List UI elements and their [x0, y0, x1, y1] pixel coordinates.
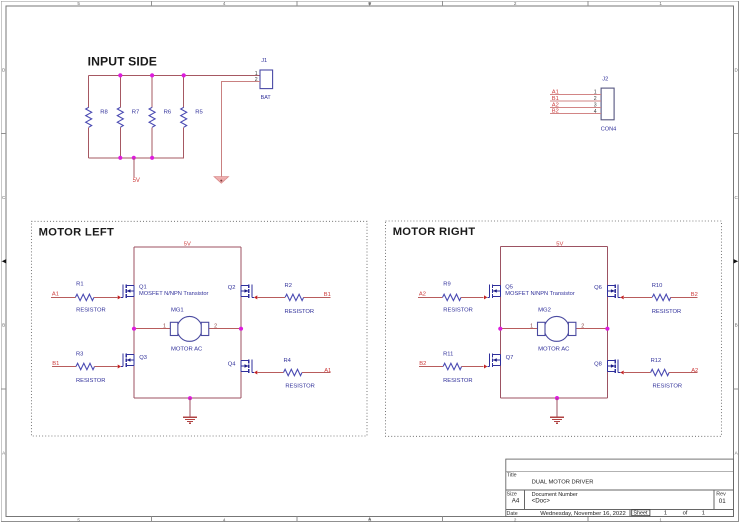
svg-text:DUAL MOTOR DRIVER: DUAL MOTOR DRIVER	[532, 479, 594, 485]
svg-text:R2: R2	[285, 283, 292, 289]
svg-text:A2: A2	[552, 102, 559, 108]
svg-text:Q7: Q7	[506, 355, 514, 361]
svg-text:2: 2	[514, 518, 517, 523]
svg-text:J1: J1	[261, 58, 267, 64]
net label B2	[419, 361, 426, 367]
net label A1	[552, 89, 559, 95]
svg-text:R9: R9	[443, 282, 450, 288]
svg-text:R1: R1	[76, 282, 83, 288]
resistor R12	[624, 358, 697, 390]
pin 1 J1	[255, 71, 258, 77]
ground bridge	[183, 417, 197, 423]
transistor Q2	[228, 284, 258, 299]
wire net B2 to J2 pin 4	[550, 113, 601, 115]
svg-text:Q6: Q6	[594, 285, 602, 291]
svg-text:<Doc>: <Doc>	[532, 498, 551, 505]
svg-text:RESISTOR: RESISTOR	[285, 384, 315, 390]
svg-text:R5: R5	[195, 110, 203, 116]
title block	[506, 459, 734, 517]
wire J1 pin2 to ground	[221, 82, 260, 177]
net label A1	[324, 368, 331, 374]
svg-text:R4: R4	[283, 358, 291, 364]
pin 1 MG1	[163, 323, 166, 329]
wire motor left	[500, 328, 537, 330]
svg-text:MOSFET N/NPN Transistor: MOSFET N/NPN Transistor	[139, 291, 209, 297]
svg-text:MOTOR AC: MOTOR AC	[171, 346, 203, 352]
junction bottom rail ground	[188, 396, 192, 400]
svg-text:Q1: Q1	[139, 285, 147, 291]
junction top rail R7	[118, 73, 122, 77]
section box MOTOR LEFT	[31, 221, 367, 436]
svg-text:A2: A2	[419, 292, 426, 298]
junction bottom rail ground	[555, 396, 559, 400]
junction left rail motor	[498, 327, 502, 331]
motor MG1	[170, 307, 208, 352]
resistor R10	[624, 283, 697, 315]
svg-text:MOTOR LEFT: MOTOR LEFT	[39, 227, 115, 239]
svg-text:R6: R6	[164, 110, 172, 116]
pin 2 J2	[594, 96, 597, 102]
svg-text:1: 1	[664, 511, 667, 517]
svg-text:1: 1	[255, 71, 258, 77]
connector J1	[260, 58, 273, 101]
svg-text:2: 2	[214, 323, 217, 329]
junction bottom rail R6	[150, 156, 154, 160]
svg-text:3: 3	[594, 103, 597, 109]
svg-text:RESISTOR: RESISTOR	[76, 378, 106, 384]
svg-text:Q4: Q4	[228, 362, 237, 368]
svg-text:RESISTOR: RESISTOR	[443, 378, 473, 384]
motor MG2	[538, 307, 576, 352]
transistor Q6	[594, 284, 624, 299]
wire 5V rail bridge	[134, 246, 241, 248]
wire right rail	[606, 247, 608, 398]
svg-text:5V: 5V	[184, 242, 191, 248]
svg-text:5V: 5V	[133, 178, 140, 184]
wire bottom rail bridge	[134, 397, 241, 399]
wire motor left	[134, 328, 170, 330]
svg-text:MG2: MG2	[538, 307, 551, 313]
svg-text:4: 4	[223, 1, 226, 6]
svg-text:MOTOR RIGHT: MOTOR RIGHT	[393, 226, 476, 238]
wire net B1 to J2 pin 2	[550, 100, 601, 102]
svg-text:B1: B1	[324, 292, 331, 298]
svg-text:Q3: Q3	[139, 355, 147, 361]
pin 2 MG1	[214, 323, 217, 329]
svg-text:5: 5	[77, 518, 80, 523]
svg-text:Sheet: Sheet	[633, 511, 648, 517]
net label B1	[552, 96, 559, 102]
svg-text:CON4: CON4	[601, 126, 617, 132]
net label A2	[552, 102, 559, 108]
svg-text:1: 1	[530, 323, 533, 329]
svg-text:5V: 5V	[556, 241, 563, 247]
svg-text:RESISTOR: RESISTOR	[443, 307, 473, 313]
power 5V bridge	[184, 242, 191, 248]
resistor R5	[181, 75, 204, 157]
svg-text:A4: A4	[512, 498, 520, 505]
svg-text:R7: R7	[132, 110, 140, 116]
svg-text:Q2: Q2	[228, 285, 236, 291]
section title INPUT SIDE	[88, 55, 157, 69]
resistor R7	[117, 75, 139, 157]
wire net A1 to J2 pin 1	[550, 94, 601, 96]
svg-text:MOSFET N/NPN Transistor: MOSFET N/NPN Transistor	[505, 291, 575, 297]
svg-text:BAT: BAT	[261, 95, 272, 101]
svg-text:2: 2	[594, 96, 597, 102]
svg-text:B1: B1	[52, 361, 59, 367]
resistor R4	[258, 358, 331, 390]
svg-text:B2: B2	[691, 292, 698, 298]
svg-text:A1: A1	[324, 368, 331, 374]
power 5V bridge	[556, 241, 563, 247]
net label B1	[324, 292, 331, 298]
pin 2 J1	[255, 77, 258, 83]
svg-text:B: B	[735, 323, 738, 328]
net label B1	[52, 361, 59, 367]
wire ground stub	[189, 398, 191, 417]
junction right rail motor	[605, 327, 609, 331]
resistor R3	[52, 351, 118, 384]
svg-text:1: 1	[163, 323, 166, 329]
junction top rail R5	[182, 73, 186, 77]
svg-text:R10: R10	[652, 283, 663, 289]
wire ground stub	[556, 398, 558, 417]
wire top rail input	[89, 74, 260, 76]
svg-text:Wednesday, November 16, 2022: Wednesday, November 16, 2022	[540, 511, 626, 517]
transistor Q3	[118, 354, 147, 369]
net label A2	[691, 368, 698, 374]
wire motor right	[576, 328, 608, 330]
svg-text:2: 2	[581, 323, 584, 329]
transistor Q7	[484, 354, 513, 369]
pin 1 J2	[594, 90, 597, 96]
svg-text:1: 1	[659, 518, 662, 523]
wire right rail	[240, 247, 242, 398]
svg-text:Q5: Q5	[505, 285, 513, 291]
resistor R6	[149, 75, 172, 157]
svg-text:1: 1	[594, 90, 597, 96]
svg-text:1: 1	[659, 1, 662, 6]
svg-text:B2: B2	[419, 361, 426, 367]
svg-text:J2: J2	[602, 76, 608, 82]
transistor Q1	[118, 284, 209, 299]
svg-text:A1: A1	[552, 89, 559, 95]
junction left rail motor	[132, 327, 136, 331]
svg-text:B: B	[2, 323, 5, 328]
svg-text:5: 5	[77, 1, 80, 6]
svg-text:INPUT SIDE: INPUT SIDE	[88, 55, 157, 69]
pin 1 MG2	[530, 323, 533, 329]
svg-text:of: of	[683, 511, 688, 517]
svg-text:Title: Title	[507, 472, 517, 478]
resistor R2	[258, 283, 331, 315]
wire left rail	[133, 247, 135, 398]
svg-text:Date: Date	[507, 511, 518, 517]
svg-text:A1: A1	[52, 292, 59, 298]
svg-text:01: 01	[719, 498, 726, 505]
transistor Q8	[594, 360, 624, 375]
svg-text:MOTOR AC: MOTOR AC	[538, 346, 570, 352]
svg-text:R11: R11	[443, 351, 453, 357]
svg-text:1: 1	[702, 511, 705, 517]
svg-text:RESISTOR: RESISTOR	[285, 309, 315, 315]
transistor Q4	[228, 360, 258, 375]
connector J2	[601, 76, 617, 132]
svg-text:R12: R12	[651, 358, 662, 364]
wire bottom rail bridge	[500, 397, 607, 399]
resistor R1	[51, 282, 117, 314]
ground bridge	[550, 417, 564, 423]
transistor Q5	[484, 284, 575, 299]
svg-text:RESISTOR: RESISTOR	[76, 307, 106, 313]
junction top rail R6	[150, 73, 154, 77]
net label B2	[552, 109, 559, 115]
junction bottom rail 5V stub	[132, 156, 136, 160]
net label A1	[52, 292, 59, 298]
net label B2	[691, 292, 698, 298]
svg-text:R8: R8	[100, 110, 108, 116]
svg-text:4: 4	[594, 109, 597, 115]
svg-text:Q8: Q8	[594, 362, 602, 368]
wire bottom rail input	[89, 157, 185, 159]
resistor R8	[86, 75, 109, 157]
wire 5V rail bridge	[500, 246, 607, 248]
wire left rail	[499, 247, 501, 398]
svg-text:R3: R3	[76, 351, 83, 357]
svg-text:4: 4	[223, 518, 226, 523]
junction bottom rail R7	[118, 156, 122, 160]
ground battery return	[214, 177, 228, 184]
wire motor right	[209, 328, 241, 330]
svg-text:MG1: MG1	[171, 307, 184, 313]
svg-text:RESISTOR: RESISTOR	[652, 309, 682, 315]
pin 2 MG2	[581, 323, 584, 329]
pin 3 J2	[594, 103, 597, 109]
svg-text:RESISTOR: RESISTOR	[653, 384, 683, 390]
svg-text:2: 2	[514, 1, 517, 6]
svg-text:B2: B2	[552, 109, 559, 115]
power 5V input	[133, 158, 140, 184]
svg-text:A2: A2	[691, 368, 698, 374]
resistor R9	[418, 282, 484, 314]
resistor R11	[419, 351, 484, 384]
svg-text:Rev: Rev	[716, 492, 726, 498]
section box MOTOR RIGHT	[386, 221, 722, 436]
net label A2	[419, 292, 426, 298]
svg-text:B1: B1	[552, 96, 559, 102]
svg-text:2: 2	[255, 77, 258, 83]
junction right rail motor	[239, 327, 243, 331]
pin 4 J2	[594, 109, 597, 115]
wire net A2 to J2 pin 3	[550, 107, 601, 109]
